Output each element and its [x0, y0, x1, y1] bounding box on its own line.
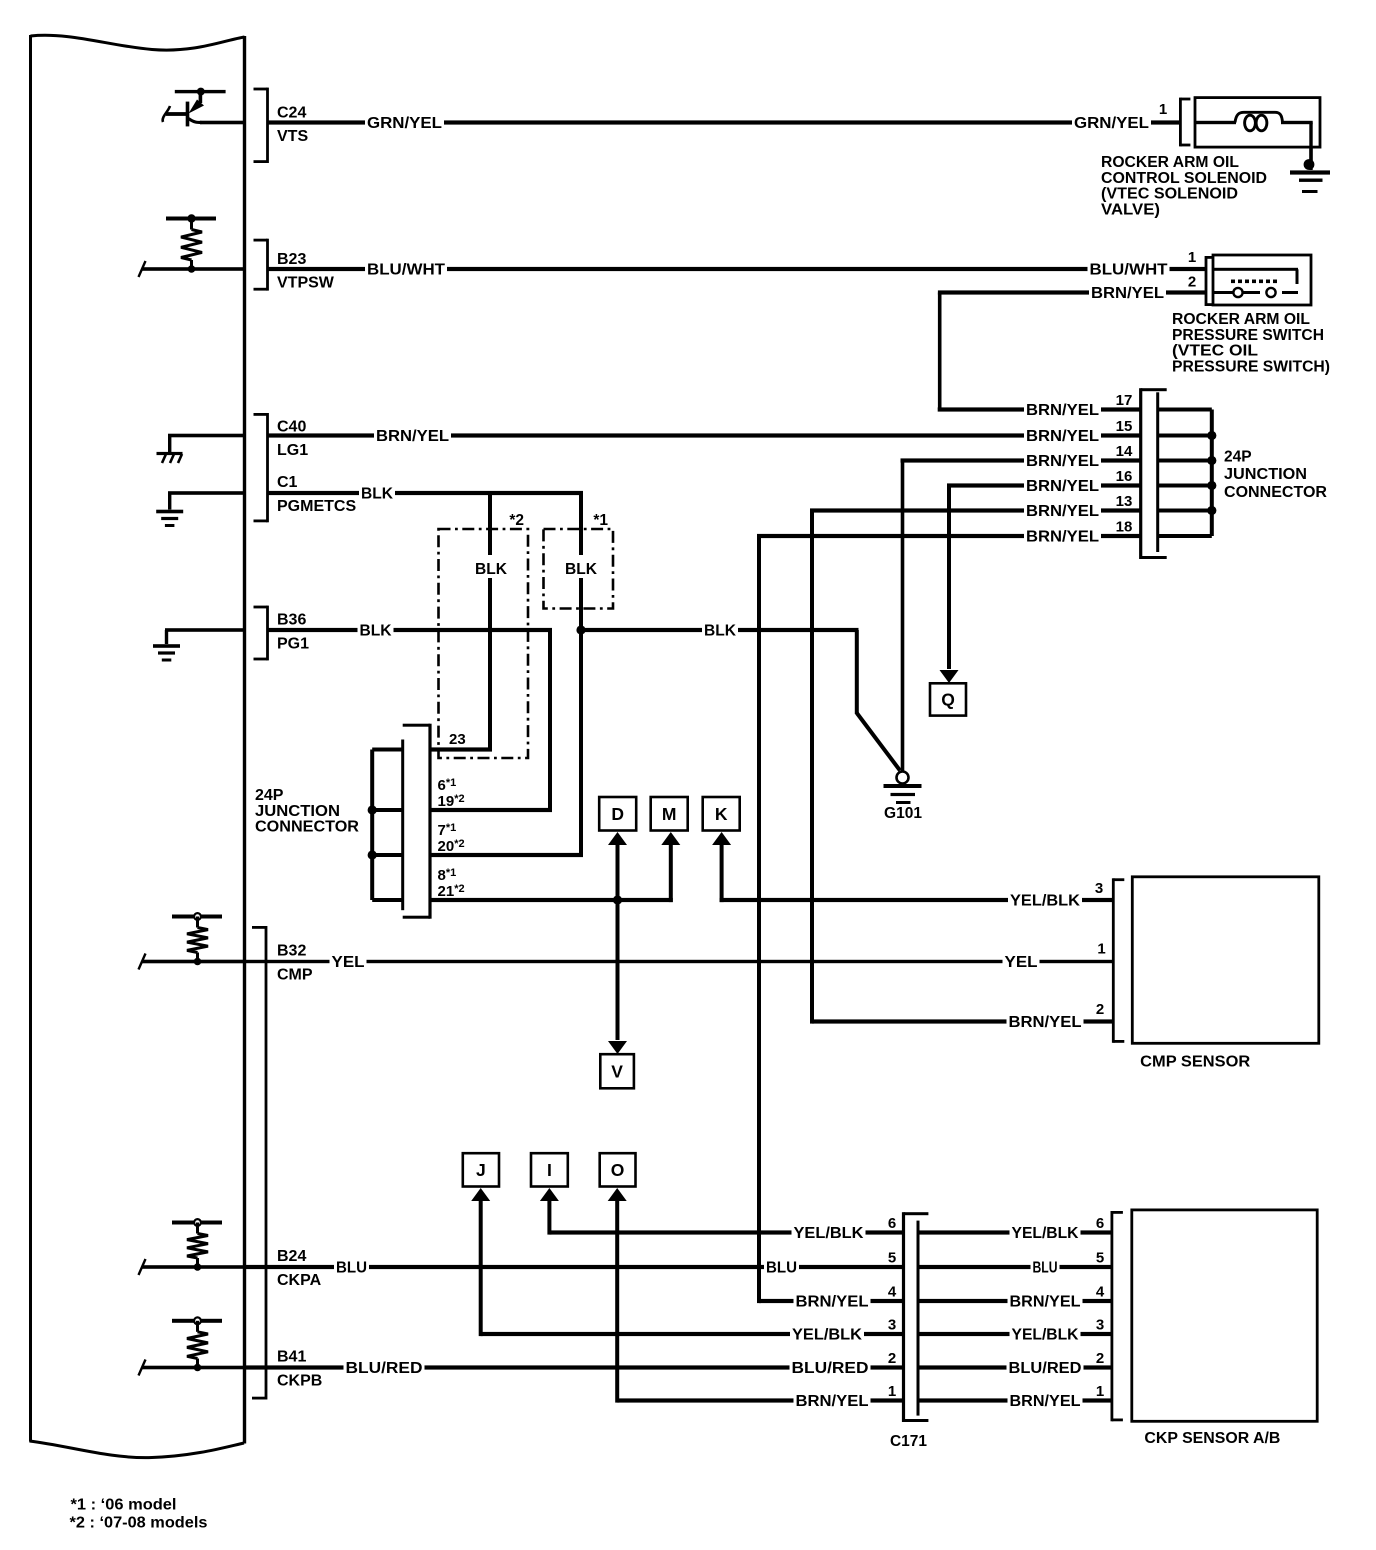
svg-text:PG1: PG1: [277, 636, 309, 653]
wire YEL/BLK (C171 pin 6 to CKP sensor): [918, 1215, 1112, 1242]
ground (PG1 earth symbol inside ECM): [153, 628, 245, 661]
connector bracket (solenoid pin 1): [1179, 98, 1190, 147]
svg-text:BLU: BLU: [336, 1260, 367, 1277]
connector Q: [930, 486, 966, 716]
chassis ground (LG1 inside ECM): [157, 434, 245, 463]
svg-text:YEL: YEL: [332, 954, 365, 971]
svg-text:GRN/YEL: GRN/YEL: [367, 115, 442, 132]
svg-text:Q: Q: [941, 690, 955, 710]
svg-text:2: 2: [888, 1350, 896, 1367]
wire BLK (PGMETCS feed): [268, 485, 584, 503]
svg-text:V: V: [611, 1062, 623, 1082]
svg-text:CMP: CMP: [277, 967, 313, 984]
svg-text:ROCKER ARM OIL: ROCKER ARM OIL: [1172, 311, 1310, 328]
svg-text:CONNECTOR: CONNECTOR: [255, 819, 359, 836]
pin 1 (pressure switch): [1188, 249, 1196, 266]
pin C40 LG1: [254, 413, 309, 522]
svg-text:BRN/YEL: BRN/YEL: [1010, 1393, 1081, 1410]
svg-text:2: 2: [1096, 1350, 1104, 1367]
wire YEL/BLK (I to C171 pin 6) label: [792, 1224, 866, 1242]
wire BLU/RED (C171 pin 2 to CKP sensor): [918, 1350, 1112, 1377]
svg-text:13: 13: [1116, 493, 1133, 510]
svg-text:*2: *2: [509, 512, 524, 529]
svg-text:K: K: [715, 804, 728, 824]
svg-text:I: I: [547, 1160, 552, 1180]
svg-text:G101: G101: [884, 805, 922, 822]
svg-text:6: 6: [888, 1215, 896, 1232]
svg-text:5: 5: [1096, 1250, 1104, 1267]
pin C24 VTS (ECM connector bracket): [254, 88, 309, 163]
svg-text:1: 1: [1097, 941, 1105, 958]
wire BRN/YEL (junction pin 13): [810, 493, 1141, 520]
wire BLK *1 (PGMETCS drop): [564, 493, 598, 630]
svg-text:BLK: BLK: [361, 486, 393, 503]
svg-text:JUNCTION: JUNCTION: [255, 803, 340, 820]
svg-text:BRN/YEL: BRN/YEL: [796, 1393, 869, 1410]
ECM connector block (torn-edge outline): [29, 35, 246, 1458]
label 24P JUNCTION CONNECTOR (left): [255, 787, 359, 836]
svg-text:BRN/YEL: BRN/YEL: [1026, 529, 1099, 546]
label 24P JUNCTION CONNECTOR (right): [1224, 449, 1327, 501]
pin 2 (pressure switch): [1188, 274, 1196, 291]
wire GRN/YEL (C24 to solenoid pin 1): [268, 114, 1181, 132]
transistor Q (VTS output driver inside ECM): [163, 88, 245, 127]
rocker arm oil control solenoid (coil): [1195, 98, 1320, 164]
pin B32 CMP: [277, 943, 313, 984]
svg-text:2: 2: [1096, 1001, 1104, 1018]
pin 23 (junction connector): [430, 731, 492, 752]
svg-text:C24: C24: [277, 105, 306, 122]
connector I: [531, 1153, 904, 1234]
svg-text:3: 3: [1095, 880, 1103, 897]
wire YEL/BLK (K to CMP pin 3): [720, 892, 1114, 910]
label ROCKER ARM OIL PRESSURE SWITCH: [1172, 311, 1330, 375]
CMP sensor: [1112, 877, 1319, 1071]
svg-text:BRN/YEL: BRN/YEL: [1010, 1294, 1081, 1311]
svg-text:BRN/YEL: BRN/YEL: [796, 1294, 869, 1311]
svg-text:CONNECTOR: CONNECTOR: [1224, 484, 1327, 501]
wire BRN/YEL (junction pin 18 to C171 pin 4): [757, 536, 904, 1311]
svg-text:VTPSW: VTPSW: [277, 275, 335, 292]
wire BLK (junction to G101 branch): [581, 622, 900, 771]
svg-text:BRN/YEL: BRN/YEL: [1026, 428, 1099, 445]
svg-text:15: 15: [1116, 418, 1133, 435]
pin 2 (CMP sensor): [1096, 1001, 1104, 1018]
svg-text:17: 17: [1116, 392, 1133, 409]
svg-text:BLU/RED: BLU/RED: [346, 1360, 423, 1377]
svg-text:BRN/YEL: BRN/YEL: [1009, 1014, 1082, 1031]
connector M: [651, 797, 688, 902]
svg-text:14: 14: [1116, 443, 1133, 460]
dashed option box *1: [544, 512, 614, 609]
svg-text:YEL/BLK: YEL/BLK: [792, 1327, 862, 1344]
svg-text:4: 4: [1096, 1284, 1105, 1301]
svg-text:C40: C40: [277, 419, 306, 436]
pin numbers C171 left: [888, 1215, 897, 1400]
svg-text:PGMETCS: PGMETCS: [277, 498, 356, 515]
bus (left junction connector): [368, 748, 403, 903]
svg-text:YEL/BLK: YEL/BLK: [1012, 1327, 1079, 1344]
svg-text:YEL/BLK: YEL/BLK: [1010, 893, 1080, 910]
wire BRN/YEL (junction pin 15): [1024, 418, 1132, 445]
wire BLU/WHT (B23 to pressure switch pin 1): [268, 261, 1207, 279]
rocker arm oil pressure switch: [1205, 255, 1311, 306]
svg-text:5: 5: [888, 1250, 896, 1267]
pin 3 (CMP sensor): [1095, 880, 1103, 897]
svg-text:24P: 24P: [255, 787, 284, 804]
svg-text:M: M: [662, 804, 677, 824]
pin bracket (B32 / B24 / B41 group): [252, 926, 267, 1400]
wire BRN/YEL (junction pin 14): [901, 443, 1141, 470]
node (pin 8/21 wire junction at D): [613, 895, 622, 904]
node BLK junction: [576, 625, 585, 634]
svg-text:2: 2: [1188, 274, 1196, 291]
wire BRN/YEL (C171 pin 1 to CKP sensor): [918, 1383, 1112, 1410]
svg-text:23: 23: [449, 731, 466, 748]
svg-text:J: J: [476, 1160, 486, 1180]
svg-text:JUNCTION: JUNCTION: [1224, 466, 1307, 483]
footnote *1 / *2 model years: [70, 1497, 208, 1532]
svg-text:BLK: BLK: [704, 623, 736, 640]
connector O: [600, 1153, 904, 1402]
connector J: [463, 1153, 904, 1336]
svg-text:C1: C1: [277, 474, 298, 491]
svg-text:3: 3: [1096, 1317, 1104, 1334]
connector D: [599, 797, 636, 900]
svg-text:C171: C171: [890, 1433, 927, 1450]
svg-text:(VTEC SOLENOID: (VTEC SOLENOID: [1101, 186, 1238, 203]
svg-text:LG1: LG1: [277, 442, 308, 459]
svg-text:PRESSURE SWITCH: PRESSURE SWITCH: [1172, 327, 1324, 344]
pin 6/19 (junction connector): [430, 777, 552, 812]
svg-text:*1 : ‘06 model: *1 : ‘06 model: [71, 1497, 177, 1514]
svg-text:BLU/RED: BLU/RED: [792, 1360, 869, 1377]
svg-text:BRN/YEL: BRN/YEL: [1091, 285, 1164, 302]
connector C171: [890, 1212, 928, 1450]
connector K: [703, 797, 740, 902]
svg-text:YEL/BLK: YEL/BLK: [794, 1225, 864, 1242]
label ROCKER ARM OIL CONTROL SOLENOID: [1101, 154, 1267, 218]
svg-text:BLU/WHT: BLU/WHT: [1090, 262, 1168, 279]
svg-text:BLK: BLK: [360, 623, 392, 640]
wire BLU/RED (B41 to C171 pin 2): [245, 1359, 904, 1377]
resistor (CKPA pull-up inside ECM): [139, 1219, 245, 1275]
svg-text:BRN/YEL: BRN/YEL: [376, 428, 449, 445]
svg-text:CKPA: CKPA: [277, 1272, 322, 1289]
svg-text:BRN/YEL: BRN/YEL: [1026, 402, 1099, 419]
svg-text:BLK: BLK: [475, 561, 507, 578]
wire BLU (C171 pin 5 to CKP sensor): [918, 1250, 1112, 1277]
wire BRN/YEL (pressure switch pin 2 to junction pin 17): [938, 284, 1206, 410]
pin 8/21 (junction connector): [430, 867, 673, 902]
wire BLU (B24 to C171 pin 5): [245, 1259, 904, 1277]
svg-text:18: 18: [1116, 519, 1133, 536]
resistor (CMP pull-up inside ECM): [139, 913, 245, 969]
svg-text:1: 1: [1188, 249, 1196, 266]
wire BRN/YEL (junction pin 18): [757, 519, 1141, 546]
svg-text:B36: B36: [277, 612, 306, 629]
svg-text:BLU/RED: BLU/RED: [1009, 1360, 1082, 1377]
svg-text:PRESSURE SWITCH): PRESSURE SWITCH): [1172, 358, 1330, 375]
CKP sensor A/B: [1111, 1210, 1318, 1447]
svg-text:B23: B23: [277, 251, 306, 268]
24P junction connector (left): [401, 724, 431, 919]
svg-text:16: 16: [1116, 468, 1133, 485]
svg-text:BRN/YEL: BRN/YEL: [1026, 503, 1099, 520]
wire BLK (PG1 to junction pin 6/19): [268, 622, 553, 811]
pin B24 CKPA: [277, 1248, 322, 1289]
svg-text:CKP SENSOR A/B: CKP SENSOR A/B: [1144, 1430, 1280, 1447]
svg-text:CONTROL SOLENOID: CONTROL SOLENOID: [1101, 170, 1267, 187]
wire BLK *2 (to junction pin 23): [474, 493, 508, 750]
connector V: [600, 900, 634, 1088]
svg-text:ROCKER ARM OIL: ROCKER ARM OIL: [1101, 154, 1239, 171]
dashed option box *2: [439, 512, 529, 758]
wire BRN/YEL (junction pin 17): [938, 392, 1141, 419]
pin 1 (solenoid): [1159, 101, 1167, 118]
svg-text:*2 : ‘07-08 models: *2 : ‘07-08 models: [70, 1515, 208, 1532]
svg-text:GRN/YEL: GRN/YEL: [1074, 115, 1149, 132]
wire BRN/YEL (O to C171 pin 1) label: [794, 1392, 871, 1410]
svg-text:O: O: [611, 1160, 625, 1180]
wire BRN/YEL (junction pin 13 to CMP pin 2): [810, 511, 1113, 1032]
svg-text:BRN/YEL: BRN/YEL: [1026, 453, 1099, 470]
svg-text:BLU: BLU: [1033, 1260, 1058, 1277]
wire YEL (B32 to CMP pin 1): [245, 953, 1114, 971]
pin B23 VTPSW: [254, 239, 335, 292]
svg-text:24P: 24P: [1224, 449, 1252, 466]
pin B41 CKPB: [277, 1349, 322, 1390]
svg-text:B24: B24: [277, 1248, 306, 1265]
resistor (CKPB pull-up inside ECM): [139, 1317, 245, 1375]
pin 1 (CMP sensor): [1097, 941, 1105, 958]
svg-text:BRN/YEL: BRN/YEL: [1026, 478, 1099, 495]
ground G101: [884, 461, 923, 823]
svg-text:(VTEC OIL: (VTEC OIL: [1172, 343, 1258, 360]
svg-text:BLU: BLU: [766, 1260, 797, 1277]
svg-text:VTS: VTS: [277, 128, 308, 145]
svg-text:BLU/WHT: BLU/WHT: [367, 262, 445, 279]
svg-text:B41: B41: [277, 1349, 306, 1366]
ground (solenoid, earth symbol): [1290, 146, 1330, 193]
svg-text:*1: *1: [593, 512, 608, 529]
svg-text:1: 1: [1159, 101, 1167, 118]
24P junction connector (right): [1139, 388, 1167, 559]
svg-text:D: D: [611, 804, 624, 824]
ground (PGMETCS earth symbol inside ECM): [156, 491, 244, 527]
svg-text:6: 6: [1096, 1215, 1104, 1232]
svg-text:B32: B32: [277, 943, 306, 960]
resistor (VTPSW pull-up inside ECM): [139, 214, 245, 277]
wire BRN/YEL (C171 pin 4 to CKP sensor): [918, 1284, 1112, 1311]
pin 7/20 (junction connector): [430, 630, 583, 857]
svg-text:BLK: BLK: [565, 561, 597, 578]
pin B36 PG1: [254, 606, 310, 661]
bus (right junction connector): [1158, 408, 1217, 539]
wire BRN/YEL (junction pin 16): [947, 468, 1141, 495]
wire YEL/BLK (C171 pin 3 to CKP sensor): [918, 1317, 1112, 1344]
svg-text:YEL/BLK: YEL/BLK: [1012, 1225, 1079, 1242]
svg-text:CKPB: CKPB: [277, 1373, 322, 1390]
svg-text:4: 4: [888, 1284, 897, 1301]
pin C1 PGMETCS: [277, 474, 356, 515]
svg-text:3: 3: [888, 1317, 896, 1334]
svg-text:1: 1: [888, 1383, 896, 1400]
wire BRN/YEL (LG1 to junction pin 15): [268, 427, 1141, 445]
wire YEL/BLK (J to C171 pin 3) label: [790, 1326, 864, 1344]
svg-text:YEL: YEL: [1005, 954, 1038, 971]
svg-text:1: 1: [1096, 1383, 1104, 1400]
svg-text:VALVE): VALVE): [1101, 201, 1160, 218]
svg-text:CMP SENSOR: CMP SENSOR: [1140, 1054, 1250, 1071]
